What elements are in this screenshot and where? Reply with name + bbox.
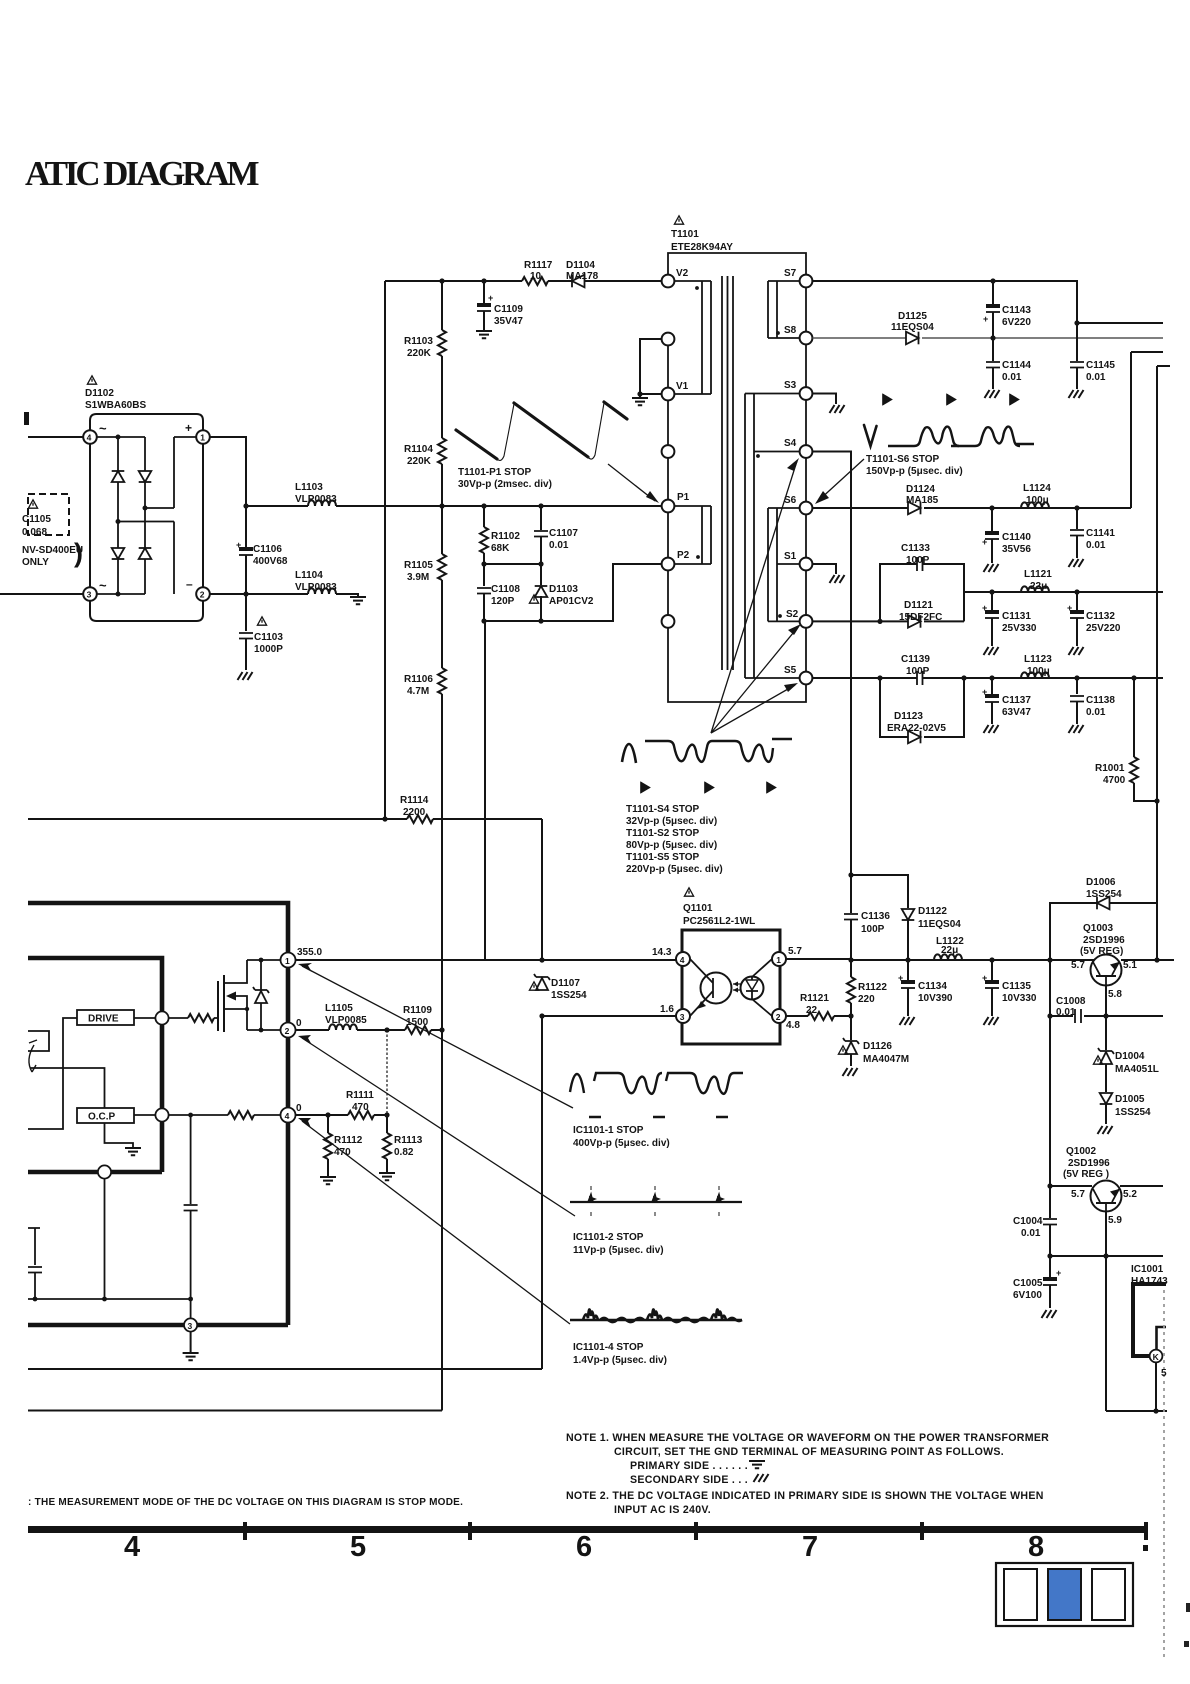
svg-text:(5V REG ): (5V REG ) xyxy=(1063,1169,1109,1180)
wire pin3 row Q1101 xyxy=(542,1015,676,1017)
svg-text:L1105: L1105 xyxy=(325,1003,353,1014)
svg-text:1SS254: 1SS254 xyxy=(551,990,587,1001)
ruler bar xyxy=(28,1526,1148,1533)
light arrows xyxy=(733,984,741,990)
internal ground OCP xyxy=(105,1123,134,1148)
substrate arrow xyxy=(232,996,247,1009)
pin 4 xyxy=(83,430,97,444)
svg-text:D1126: D1126 xyxy=(863,1041,892,1052)
resistor R1106 xyxy=(438,668,446,694)
svg-text:400Vp-p (5μsec. div): 400Vp-p (5μsec. div) xyxy=(573,1138,670,1149)
wire source row xyxy=(247,1029,281,1031)
wire pin1 stub xyxy=(174,436,196,438)
arrow pin2 to waveform xyxy=(302,1038,575,1216)
svg-text:IC1101-2 STOP: IC1101-2 STOP xyxy=(573,1232,644,1243)
capacitor C1137 xyxy=(991,678,993,694)
diode D1121 xyxy=(908,615,921,628)
svg-text:Q1101: Q1101 xyxy=(683,903,713,914)
svg-text:ONLY: ONLY xyxy=(22,557,49,568)
svg-text:14.3: 14.3 xyxy=(652,947,672,958)
indicator square 1 xyxy=(1004,1569,1037,1620)
pin S6 xyxy=(800,502,813,515)
svg-text:): ) xyxy=(74,538,83,568)
svg-text:5: 5 xyxy=(1161,1368,1167,1379)
svg-text:R1106: R1106 xyxy=(404,674,433,685)
inductor L1104 xyxy=(308,588,336,594)
waveform flags top xyxy=(883,394,892,405)
svg-text:2: 2 xyxy=(285,1026,290,1036)
svg-text:T1101-S4 STOP: T1101-S4 STOP xyxy=(626,804,700,815)
svg-text:L1103: L1103 xyxy=(295,482,323,493)
svg-text:10V390: 10V390 xyxy=(918,993,953,1004)
diode D1005 xyxy=(1100,1093,1113,1104)
svg-text:R1114: R1114 xyxy=(400,795,429,806)
svg-text:C1004: C1004 xyxy=(1013,1216,1043,1227)
resistor R1117 xyxy=(522,277,548,285)
wire DRIVE row resistor xyxy=(169,1017,188,1019)
svg-text:VLP0085: VLP0085 xyxy=(325,1015,367,1026)
svg-text:3: 3 xyxy=(680,1012,685,1022)
waveform IC1101-2 xyxy=(570,1201,742,1203)
node 5.7 row C1136 xyxy=(848,957,853,962)
svg-text:15DF2FC: 15DF2FC xyxy=(899,612,942,623)
ground R1113 xyxy=(379,1173,395,1180)
wire K down xyxy=(1155,1362,1157,1411)
svg-text:D1123: D1123 xyxy=(894,711,923,722)
svg-text:470: 470 xyxy=(352,1102,369,1113)
warning triangle C1103 xyxy=(257,617,266,625)
svg-text:T1101-S2 STOP: T1101-S2 STOP xyxy=(626,828,700,839)
svg-text:L1121: L1121 xyxy=(1024,569,1052,580)
svg-text:+: + xyxy=(982,687,987,697)
transistor Q1003 xyxy=(1091,955,1122,986)
svg-text:1: 1 xyxy=(200,433,205,443)
arrow pin1 to waveform xyxy=(302,966,573,1108)
waveform dashes xyxy=(589,1116,728,1119)
wire AC input bottom xyxy=(0,593,83,595)
capacitor C1141 xyxy=(1076,508,1078,529)
ground C1144 xyxy=(985,390,1000,398)
capacitor C1005 xyxy=(1049,1256,1051,1277)
wire AC input top xyxy=(28,436,83,438)
node C1131 xyxy=(989,589,994,594)
svg-text:ETE28K94AY: ETE28K94AY xyxy=(671,242,733,253)
OCP pin circle xyxy=(155,1108,168,1121)
svg-text:C1145: C1145 xyxy=(1086,360,1115,371)
node P1 row R chain xyxy=(439,503,444,508)
wire bottom row IC1001 xyxy=(1106,1410,1167,1412)
wire C1136-D1122 top link xyxy=(851,875,908,908)
ground C1109 xyxy=(476,331,492,338)
svg-text:0.01: 0.01 xyxy=(549,540,569,551)
ground C1134 xyxy=(900,1017,915,1025)
wire OCP to circle xyxy=(134,1114,155,1116)
gate bar xyxy=(217,981,219,1031)
DRIVE pin circle xyxy=(155,1011,168,1024)
svg-text:V1: V1 xyxy=(676,381,689,392)
ground C1132 xyxy=(1069,647,1084,655)
svg-text:32Vp-p (5μsec. div): 32Vp-p (5μsec. div) xyxy=(626,816,717,827)
wire C1008 row xyxy=(1050,960,1163,1186)
capacitor C1103 xyxy=(245,594,247,631)
wire L1105 node to R1113 xyxy=(386,1030,388,1115)
svg-text:5.2: 5.2 xyxy=(1123,1189,1137,1200)
svg-text:2: 2 xyxy=(200,590,205,600)
capacitor C1131 xyxy=(991,592,993,610)
wire drain row xyxy=(247,959,281,961)
capacitor C1134 xyxy=(907,960,909,980)
svg-text:C1108: C1108 xyxy=(491,584,520,595)
pin 2 circle xyxy=(281,1023,296,1038)
winding P1-P2 xyxy=(675,506,712,564)
warning triangle T1101 xyxy=(674,216,683,224)
svg-text:22μ: 22μ xyxy=(1030,581,1047,592)
svg-text:5: 5 xyxy=(350,1531,366,1563)
svg-text:11EQS04: 11EQS04 xyxy=(918,919,961,930)
svg-text:+: + xyxy=(236,540,241,550)
resistor R1111 xyxy=(348,1111,374,1119)
svg-text:S7: S7 xyxy=(784,268,797,279)
svg-text:3: 3 xyxy=(188,1321,193,1331)
wire S4 drop vertical xyxy=(812,452,851,876)
svg-text:11Vp-p (5μsec. div): 11Vp-p (5μsec. div) xyxy=(573,1245,664,1256)
svg-text:R1122: R1122 xyxy=(858,982,887,993)
svg-text:DRIVE: DRIVE xyxy=(88,1014,119,1025)
capacitor C1004 xyxy=(1049,1186,1051,1218)
svg-text:0.01: 0.01 xyxy=(1056,1007,1076,1018)
svg-text:C1134: C1134 xyxy=(918,981,947,992)
svg-text:80Vp-p (5μsec. div): 80Vp-p (5μsec. div) xyxy=(626,840,717,851)
node C1135 xyxy=(989,957,994,962)
V1 ground loop xyxy=(640,339,662,397)
node OCP cap xyxy=(188,1113,193,1118)
node C1140 xyxy=(989,505,994,510)
svg-text:63V47: 63V47 xyxy=(1002,707,1031,718)
ground C1140 xyxy=(984,564,999,572)
internal cap left xyxy=(28,1228,40,1265)
svg-text:PC2561L2-1WL: PC2561L2-1WL xyxy=(683,916,755,927)
svg-text:D1006: D1006 xyxy=(1086,877,1116,888)
pin S5 xyxy=(800,672,813,685)
capacitor C1107 xyxy=(540,506,542,530)
wire diode column a xyxy=(117,437,119,594)
svg-text:D1124: D1124 xyxy=(906,484,935,495)
wire 5.7 row xyxy=(786,959,1094,960)
svg-text:6: 6 xyxy=(576,1531,592,1563)
resistor R1114 xyxy=(407,815,433,823)
ground C1138 xyxy=(1069,725,1084,733)
svg-text:R1117: R1117 xyxy=(524,260,553,271)
svg-text:INPUT AC IS 240V.: INPUT AC IS 240V. xyxy=(614,1504,711,1516)
pin K circle xyxy=(1150,1350,1163,1363)
capacitor C1136 xyxy=(850,875,852,913)
svg-text:O.C.P: O.C.P xyxy=(88,1112,116,1123)
pin S3 xyxy=(800,387,813,400)
winding dot V2 xyxy=(695,286,699,290)
node D1107 bottom xyxy=(539,1013,544,1018)
ground C1137 xyxy=(984,725,999,733)
svg-text:S1: S1 xyxy=(784,551,797,562)
internal wire to OCP top xyxy=(30,1068,105,1108)
svg-text:D1107: D1107 xyxy=(551,978,580,989)
wire pin4 row R1111 xyxy=(296,1114,388,1116)
svg-text:2SD1996: 2SD1996 xyxy=(1068,1158,1110,1169)
svg-text:K: K xyxy=(1153,1352,1160,1362)
node R chain top xyxy=(439,278,444,283)
svg-text:10: 10 xyxy=(530,271,542,282)
wire C1106 to bottom row xyxy=(245,555,247,594)
svg-text:P1: P1 xyxy=(677,492,690,503)
svg-text:0.01: 0.01 xyxy=(1021,1228,1041,1239)
wire R1121 row xyxy=(786,1015,851,1017)
wire Q1003 right to bus xyxy=(1121,959,1174,961)
arrow to P1 xyxy=(608,464,655,501)
svg-text:1000P: 1000P xyxy=(254,644,283,655)
svg-text:0.82: 0.82 xyxy=(394,1147,414,1158)
ground C1005 xyxy=(1042,1310,1057,1318)
wire L1104 to ground xyxy=(336,594,358,596)
capacitor C1108 xyxy=(483,564,485,586)
svg-text:400V68: 400V68 xyxy=(253,556,288,567)
ground S1 xyxy=(830,575,845,583)
indicator square 2 blue xyxy=(1048,1569,1081,1620)
page edge speck 2 xyxy=(1186,1603,1190,1612)
resistor R1104 xyxy=(438,438,446,464)
wire bottom node xyxy=(97,593,145,595)
warning triangle Q1101 xyxy=(684,888,693,896)
svg-text:Q1003: Q1003 xyxy=(1083,923,1113,934)
svg-text:~: ~ xyxy=(99,421,107,436)
notch above K xyxy=(1157,1327,1167,1349)
svg-text:R1105: R1105 xyxy=(404,560,433,571)
svg-text:C1139: C1139 xyxy=(901,654,930,665)
svg-text:S5: S5 xyxy=(784,665,797,676)
svg-text:0.068: 0.068 xyxy=(22,527,47,538)
svg-text:NOTE 2. THE DC VOLTAGE INDIC: NOTE 2. THE DC VOLTAGE INDICATED IN PRIM… xyxy=(566,1490,1044,1502)
diode D1126 zener xyxy=(850,1016,852,1040)
page edge speck 3 xyxy=(1184,1641,1189,1647)
transistor Q1002 xyxy=(1091,1181,1122,1212)
svg-text:VLP0083: VLP0083 xyxy=(295,582,337,593)
svg-text:1: 1 xyxy=(776,955,781,965)
node loop R1114 xyxy=(382,816,387,821)
resistor R1122 xyxy=(850,960,852,977)
pin P1 xyxy=(662,500,675,513)
svg-text:C1103: C1103 xyxy=(254,632,283,643)
svg-text:R1113: R1113 xyxy=(394,1135,423,1146)
svg-text:35V47: 35V47 xyxy=(494,316,523,327)
svg-text:L1104: L1104 xyxy=(295,570,323,581)
wire mid row snubber xyxy=(484,563,541,565)
svg-text:4: 4 xyxy=(87,433,92,443)
svg-text:D1104: D1104 xyxy=(566,260,595,271)
node C1107 top xyxy=(538,503,543,508)
wire L1121 row xyxy=(964,591,1163,593)
svg-text:1: 1 xyxy=(285,956,290,966)
pin S2 xyxy=(800,615,813,628)
wire S8 row xyxy=(812,337,1163,339)
svg-text:+: + xyxy=(982,537,987,547)
svg-text:R1103: R1103 xyxy=(404,336,433,347)
svg-text:T1101-P1 STOP: T1101-P1 STOP xyxy=(458,467,532,478)
svg-text:R1001: R1001 xyxy=(1095,763,1125,774)
svg-text:C1143: C1143 xyxy=(1002,305,1031,316)
capacitor C1138 xyxy=(1076,678,1078,694)
pin P2 xyxy=(662,558,675,571)
svg-text:10V330: 10V330 xyxy=(1002,993,1037,1004)
resistor R1112 xyxy=(327,1115,329,1133)
svg-text:1SS254: 1SS254 xyxy=(1115,1107,1151,1118)
svg-text:ATIC DIAGRAM: ATIC DIAGRAM xyxy=(25,154,260,193)
svg-text:+: + xyxy=(898,973,903,983)
svg-text:C1005: C1005 xyxy=(1013,1278,1043,1289)
svg-text:D1005: D1005 xyxy=(1115,1094,1145,1105)
svg-text:5.9: 5.9 xyxy=(1108,1215,1122,1226)
capacitor C1133 xyxy=(917,557,923,571)
svg-text:4.8: 4.8 xyxy=(786,1020,800,1031)
diode D1004 zener xyxy=(1105,1016,1107,1050)
svg-text:5.7: 5.7 xyxy=(1071,1189,1085,1200)
svg-text:+: + xyxy=(488,293,493,303)
winding S6-S2 xyxy=(768,508,800,621)
svg-text:T1101-S5 STOP: T1101-S5 STOP xyxy=(626,852,700,863)
ground R1112 xyxy=(320,1177,336,1184)
page edge dashes xyxy=(1163,1290,1165,1660)
svg-text:C1140: C1140 xyxy=(1002,532,1031,543)
svg-text:C1106: C1106 xyxy=(253,544,282,555)
diode b1 xyxy=(139,471,152,482)
svg-text:25V330: 25V330 xyxy=(1002,623,1037,634)
svg-text:NOTE 1. WHEN MEASURE THE VOL: NOTE 1. WHEN MEASURE THE VOLTAGE OR WAVE… xyxy=(566,1432,1049,1444)
node C1109 xyxy=(481,278,486,283)
svg-text:30Vp-p (2msec. div): 30Vp-p (2msec. div) xyxy=(458,479,552,490)
svg-text:C1109: C1109 xyxy=(494,304,523,315)
svg-text:2SD1996: 2SD1996 xyxy=(1083,935,1125,946)
internal bottom pin circle xyxy=(98,1165,111,1178)
svg-text:355.0: 355.0 xyxy=(297,947,322,958)
ground V1 xyxy=(632,398,648,405)
winding S3-S5 xyxy=(745,394,800,679)
node C1143 bottom xyxy=(990,335,995,340)
svg-text:100P: 100P xyxy=(861,924,885,935)
page edge speck 1 xyxy=(1143,1545,1148,1551)
pin S7 xyxy=(800,275,813,288)
svg-text:0.01: 0.01 xyxy=(1086,540,1106,551)
pin S4 xyxy=(800,445,813,458)
svg-text:1SS254: 1SS254 xyxy=(1086,889,1122,900)
diode D1125 xyxy=(906,332,919,345)
svg-text:R1112: R1112 xyxy=(334,1135,363,1146)
wire Q1002 right xyxy=(1120,1185,1163,1187)
svg-text:C1131: C1131 xyxy=(1002,611,1031,622)
ground C1131 xyxy=(984,647,999,655)
wire S2 row xyxy=(812,620,964,622)
diode b2 xyxy=(139,548,152,559)
svg-text:100P: 100P xyxy=(906,555,930,566)
D1123 parallel box xyxy=(880,678,964,737)
svg-text:4: 4 xyxy=(124,1531,140,1563)
svg-text:R1109: R1109 xyxy=(403,1005,432,1016)
internal cap OCP xyxy=(190,1115,192,1204)
svg-text:1.4Vp-p (5μsec. div): 1.4Vp-p (5μsec. div) xyxy=(573,1355,667,1366)
channel bar xyxy=(223,975,225,1032)
pin S8 xyxy=(800,332,813,345)
svg-text:IC1101-4 STOP: IC1101-4 STOP xyxy=(573,1342,644,1353)
pin V1 xyxy=(662,388,675,401)
arrow pin4 to waveform xyxy=(302,1121,570,1324)
svg-text:35V56: 35V56 xyxy=(1002,544,1031,555)
wire R1114 row xyxy=(28,818,542,820)
ground C1145 xyxy=(1069,390,1084,398)
winding S7-S8 xyxy=(768,281,800,338)
svg-text:MA178: MA178 xyxy=(566,271,599,282)
waveform sawtooth xyxy=(456,402,627,459)
svg-text:C1105: C1105 xyxy=(22,514,51,525)
ground C1103 xyxy=(238,672,253,680)
svg-text:R1111: R1111 xyxy=(346,1090,374,1101)
node Q1002 row xyxy=(1047,1183,1052,1188)
svg-text:2: 2 xyxy=(776,1012,781,1022)
svg-text:0.01: 0.01 xyxy=(1086,707,1106,718)
winding dot P2 xyxy=(696,555,700,559)
wire D1107 chain vertical xyxy=(28,819,542,1369)
warning triangle xyxy=(87,376,96,384)
capacitor C1144 xyxy=(992,338,994,361)
pin 3 Q1101 xyxy=(676,1009,690,1023)
node C1138 xyxy=(1074,675,1079,680)
svg-text:D1103: D1103 xyxy=(549,584,578,595)
svg-text:V2: V2 xyxy=(676,268,689,279)
svg-text:5.7: 5.7 xyxy=(1071,960,1085,971)
resistor R1109 xyxy=(405,1026,431,1034)
svg-text:120P: 120P xyxy=(491,596,515,607)
svg-text:S4: S4 xyxy=(784,438,797,449)
svg-text:0.01: 0.01 xyxy=(1002,372,1022,383)
pin 1 Q1101 xyxy=(772,952,786,966)
pin 3 circle xyxy=(184,1318,197,1331)
wire node AC1 top xyxy=(97,436,145,438)
node R1001 top xyxy=(1131,675,1136,680)
diode a2 xyxy=(112,548,125,559)
IC1001 box xyxy=(1133,1284,1166,1356)
svg-text:22: 22 xyxy=(806,1005,818,1016)
svg-text:D1004: D1004 xyxy=(1115,1051,1145,1062)
pin 4 circle xyxy=(281,1108,296,1123)
node R1121 xyxy=(848,1013,853,1018)
svg-text:C1144: C1144 xyxy=(1002,360,1031,371)
internal wire DRIVE left loop xyxy=(28,1018,77,1129)
svg-text:+: + xyxy=(1067,603,1072,613)
IC1101 outer box xyxy=(28,903,288,1325)
waveform T1101-S4/S2/S5 xyxy=(622,744,636,763)
junction dots bridge xyxy=(116,435,148,597)
resistor R1105 xyxy=(438,554,446,580)
torn label fragment left edge xyxy=(24,412,29,425)
diode D1107 xyxy=(534,974,550,980)
svg-text:PRIMARY SIDE . . . . . .: PRIMARY SIDE . . . . . . xyxy=(630,1460,748,1472)
svg-text:5.8: 5.8 xyxy=(1108,989,1122,1000)
pin nc3 xyxy=(662,615,675,628)
wire left loop vertical xyxy=(384,281,386,819)
svg-text:4: 4 xyxy=(285,1111,290,1121)
wire snubber link vertical xyxy=(484,621,486,960)
svg-text:C1008: C1008 xyxy=(1056,996,1086,1007)
svg-text:220Vp-p (5μsec. div): 220Vp-p (5μsec. div) xyxy=(626,864,723,875)
wire exit row 323 xyxy=(1077,322,1163,324)
svg-text:D1122: D1122 xyxy=(918,906,947,917)
wire exit row 352 xyxy=(1131,352,1163,508)
wire snubber bottom to P2 xyxy=(484,564,661,621)
